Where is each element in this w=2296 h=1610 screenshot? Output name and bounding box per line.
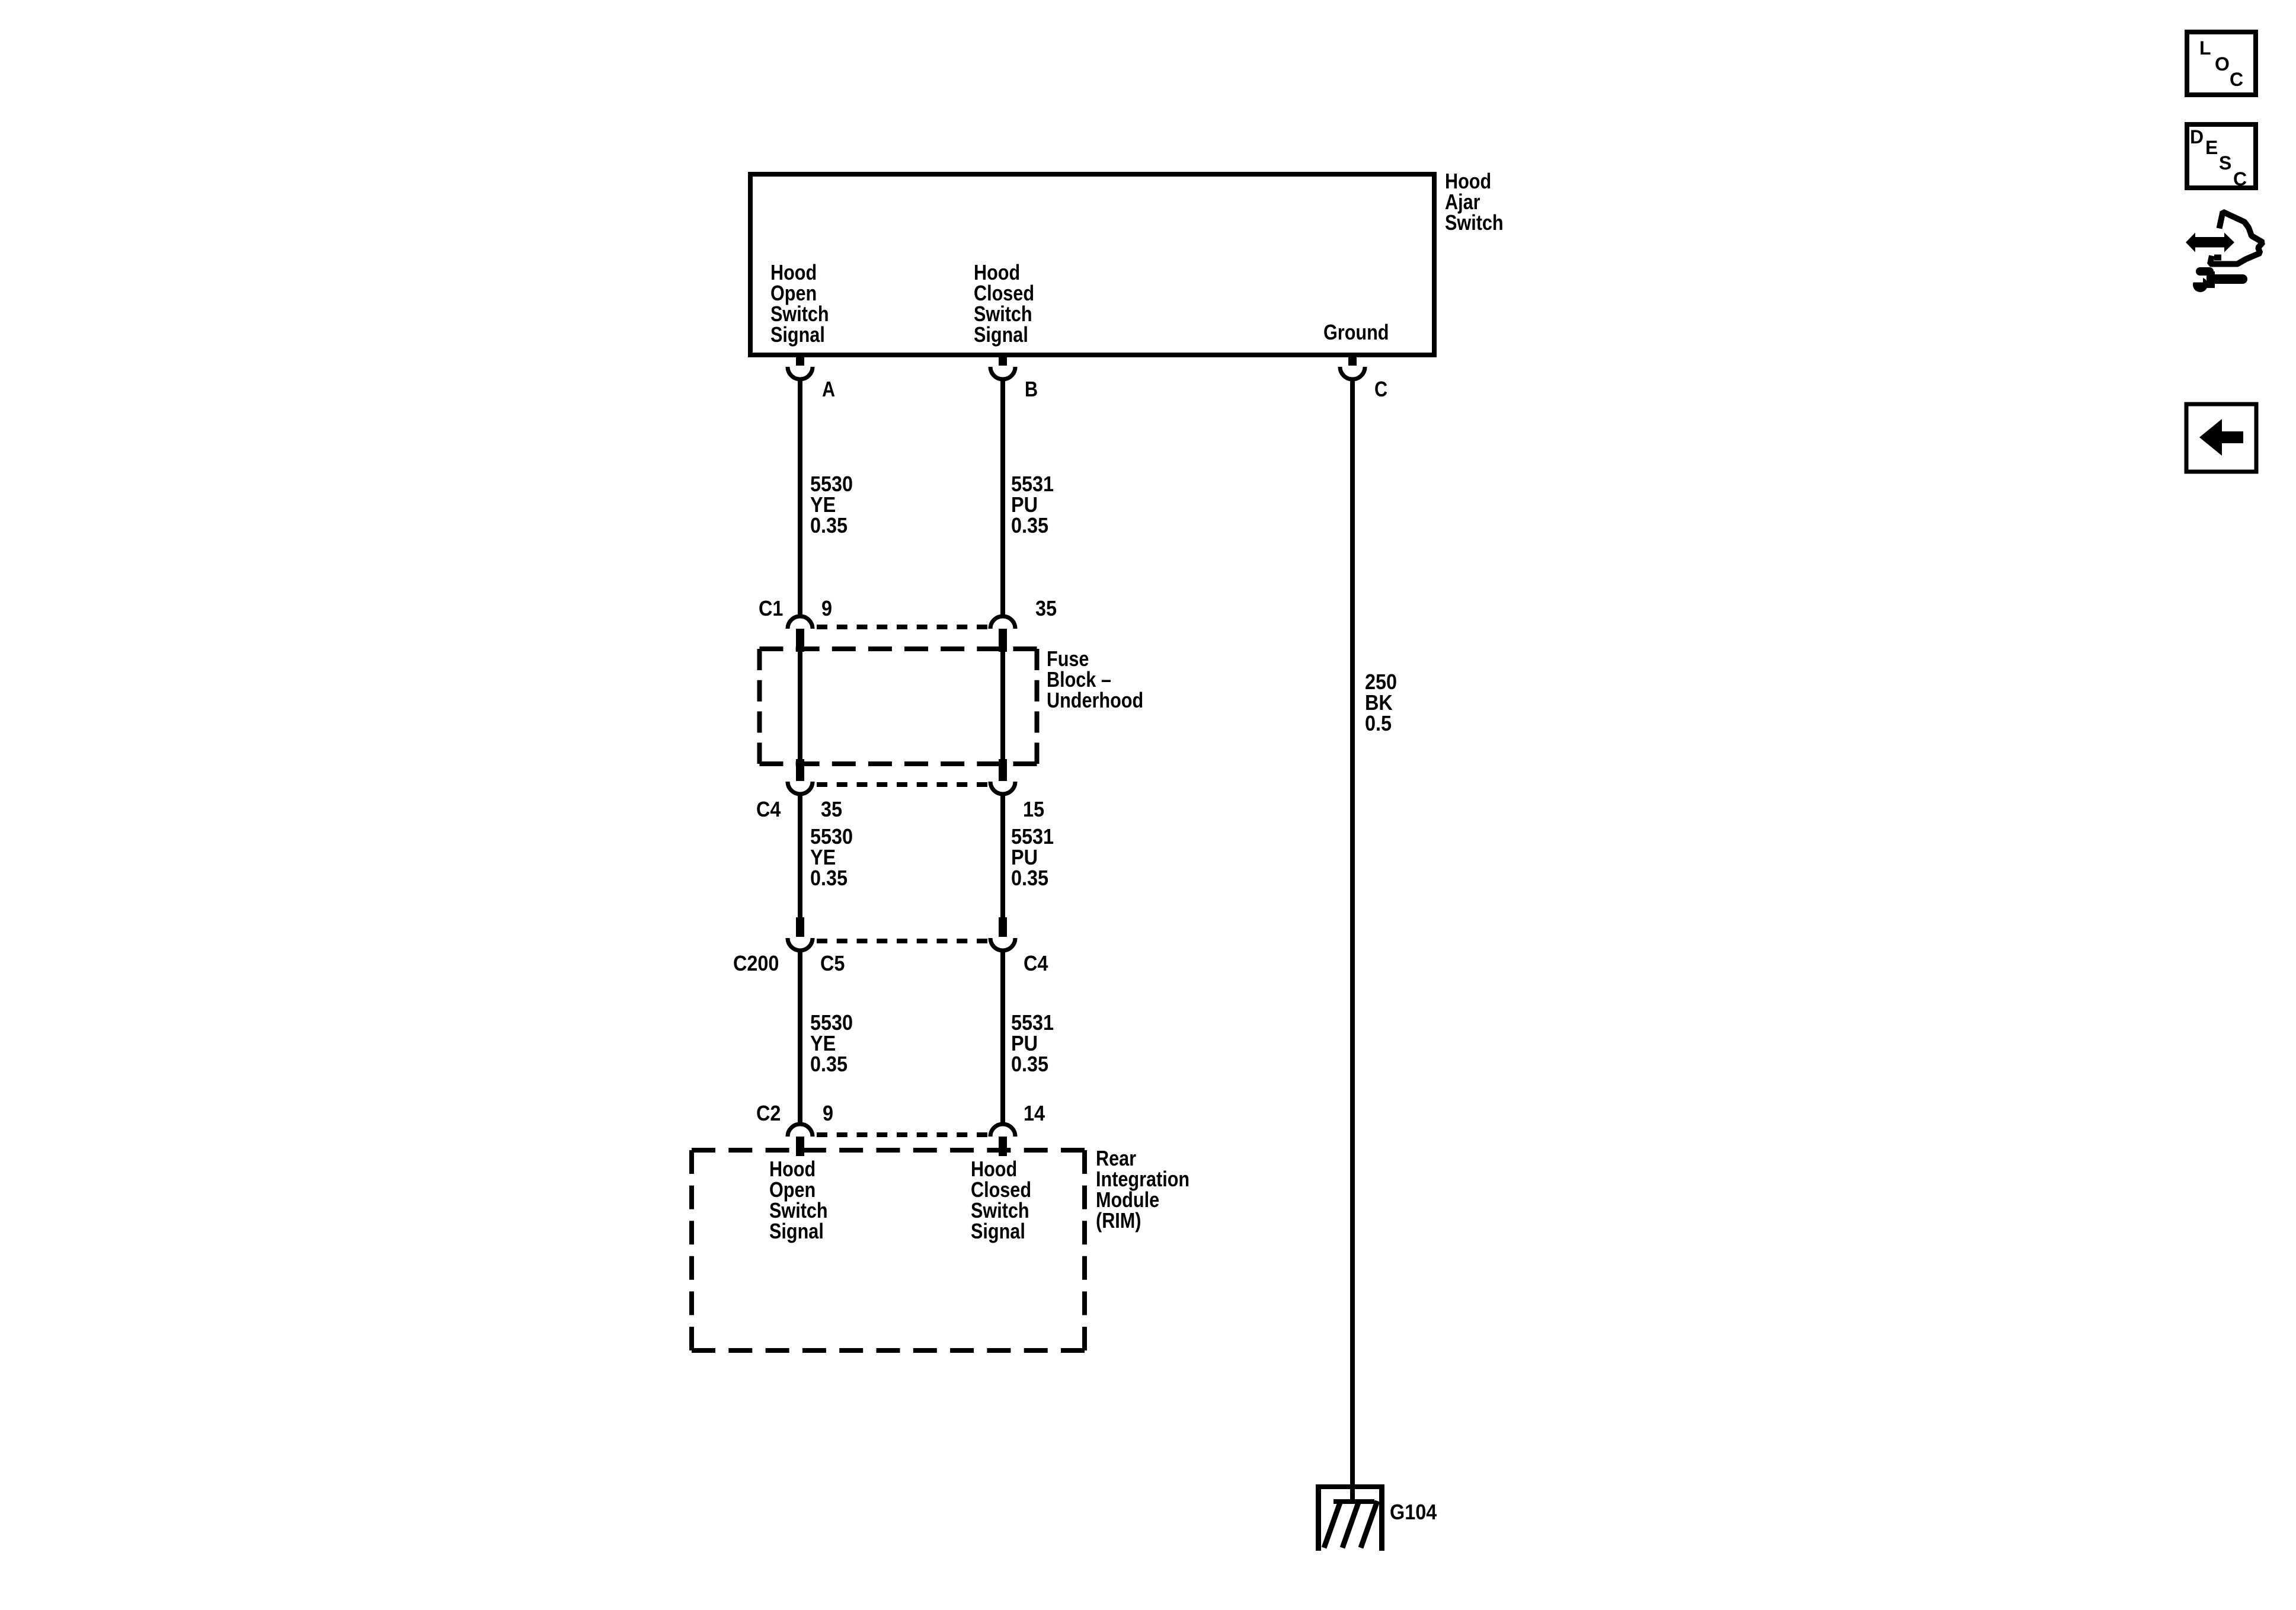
pin label C5 (C200) [820, 953, 845, 974]
back arrow [2199, 419, 2243, 456]
DESC icon letters [2190, 128, 2204, 146]
wire inside fuse block left [798, 652, 802, 761]
wire label 5531 PU 0.35 (1) [1011, 473, 1054, 536]
Rear Integration Module dashed box [692, 1150, 1085, 1350]
wire 5530 YE segment 3 [798, 952, 802, 1123]
connector C4 bridge dashes [817, 782, 987, 787]
connector label C1 [759, 598, 783, 619]
wire 5531 PU segment 1 [1000, 380, 1005, 615]
connector C2 dome right [990, 1124, 1015, 1137]
ground G104 hatch 1 [1324, 1501, 1341, 1548]
connector C4 stub right [999, 759, 1007, 781]
wire label 5530 YE 0.35 (3) [810, 1012, 853, 1074]
wire 5531 PU segment 3 [1000, 952, 1005, 1123]
pin label 35 (C4) [821, 799, 842, 820]
connector C1 dome left [788, 616, 813, 629]
LOC icon box [2187, 32, 2256, 95]
wire 5531 PU segment 2 [1000, 796, 1005, 920]
connector label C4 [756, 799, 781, 820]
wire label 5530 YE 0.35 (1) [810, 473, 853, 536]
wire 5530 YE segment 1 [798, 380, 802, 615]
pin label 9 (C1) [821, 598, 832, 619]
ground label G104 [1390, 1502, 1437, 1522]
wire label 5530 YE 0.35 (2) [810, 826, 853, 888]
connector C1 stub left [796, 629, 804, 652]
wire 5530 YE segment 2 [798, 796, 802, 920]
ground G104 inner bar [1334, 1499, 1374, 1504]
connector label C200 [733, 953, 779, 974]
pin label B [1025, 379, 1038, 399]
back arrow box [2186, 404, 2256, 472]
label Hood Closed Switch Signal (RIM) [971, 1158, 1031, 1241]
pin B female cup [990, 367, 1015, 379]
label Ground (switch) [1323, 322, 1389, 343]
ground G104 right leg [1379, 1484, 1384, 1551]
pin B stub [999, 355, 1007, 366]
Hood Ajar Switch box [750, 174, 1434, 355]
connector C2 bridge dashes [817, 1132, 987, 1137]
DESC icon box [2187, 124, 2256, 188]
connector C1 bridge dashes [817, 625, 987, 629]
pin A female cup [788, 367, 813, 379]
pin C female cup [1340, 367, 1365, 379]
ground G104 hatch 2 [1342, 1501, 1359, 1548]
label Rear Integration Module (RIM) [1096, 1148, 1189, 1231]
pin label 35 (C1) [1035, 598, 1057, 619]
wire inside fuse block right [1000, 652, 1005, 761]
LOC icon letters [2199, 39, 2211, 57]
connector C4 cup right [990, 782, 1015, 794]
connector C1 dome right [990, 616, 1015, 629]
ground G104 top bar [1316, 1484, 1384, 1489]
wiring icon wrench handle [2214, 274, 2243, 284]
ground G104 hatch 3 [1361, 1501, 1377, 1548]
connector C200 cup left [788, 938, 813, 950]
label Hood Ajar Switch [1445, 171, 1504, 233]
wiring icon connector outline [2210, 212, 2263, 264]
label Hood Closed Switch Signal (switch) [974, 262, 1034, 345]
label Hood Open Switch Signal (switch) [770, 262, 829, 345]
connector C2 dome left [788, 1124, 813, 1137]
wire label 5531 PU 0.35 (2) [1011, 826, 1054, 888]
pin label 15 (C4) [1023, 799, 1044, 820]
pin label C [1374, 379, 1387, 399]
connector C200 stub left [796, 917, 804, 937]
connector C4 cup left [788, 782, 813, 794]
wire 250 BK ground wire [1350, 380, 1355, 1502]
connector C4 stub left [796, 759, 804, 781]
wire label 5531 PU 0.35 (3) [1011, 1012, 1054, 1074]
pin label C4 (C200) [1024, 953, 1048, 974]
connector C1 stub right [999, 629, 1007, 652]
pin A stub [796, 355, 804, 366]
connector C200 stub right [999, 917, 1007, 937]
ground G104 left leg [1316, 1484, 1321, 1551]
connector C200 bridge dashes [817, 939, 987, 943]
connector C200 cup right [990, 938, 1015, 950]
wiring icon wrench head [2193, 277, 2208, 292]
connector label C2 [756, 1103, 781, 1124]
pin label A [822, 379, 835, 399]
label Hood Open Switch Signal (RIM) [769, 1158, 828, 1241]
connector C2 stub right [999, 1137, 1007, 1156]
label Fuse Block Underhood [1047, 648, 1143, 710]
pin label 14 (C2) [1024, 1103, 1045, 1124]
pin C stub [1348, 355, 1357, 366]
wire label 250 BK 0.5 [1365, 671, 1397, 734]
wiring icon double arrow [2186, 233, 2234, 252]
connector C2 stub left [796, 1137, 804, 1156]
pin label 9 (C2) [823, 1103, 833, 1124]
Fuse Block - Underhood dashed box [760, 649, 1037, 764]
